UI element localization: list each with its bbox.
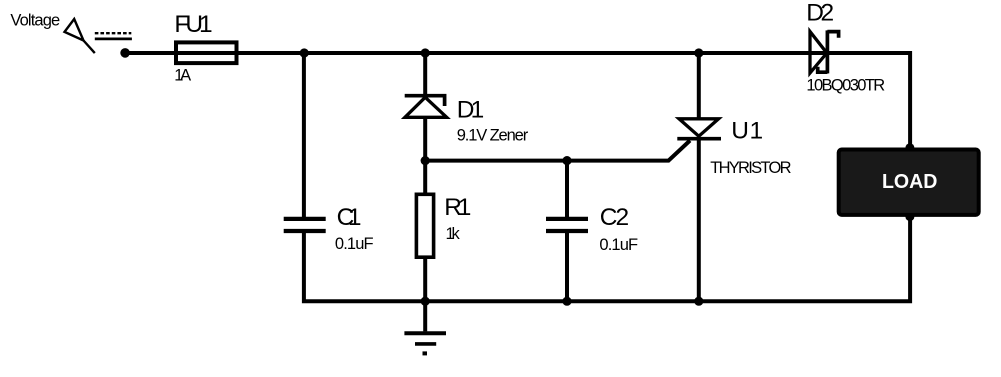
svg-text:LOAD: LOAD — [882, 171, 938, 193]
svg-text:U1: U1 — [731, 117, 763, 144]
svg-text:1A: 1A — [174, 67, 191, 85]
svg-text:C2: C2 — [600, 204, 629, 231]
svg-text:FU1: FU1 — [174, 11, 212, 38]
svg-text:D2: D2 — [806, 0, 834, 27]
svg-text:Voltage: Voltage — [10, 12, 60, 30]
svg-text:C1: C1 — [337, 204, 362, 231]
svg-text:10BQ030TR: 10BQ030TR — [806, 76, 885, 94]
svg-text:9.1V Zener: 9.1V Zener — [457, 127, 529, 145]
svg-text:D1: D1 — [457, 96, 485, 123]
svg-text:1k: 1k — [446, 225, 461, 243]
svg-text:0.1uF: 0.1uF — [335, 235, 374, 253]
svg-text:THYRISTOR: THYRISTOR — [710, 159, 791, 177]
svg-text:0.1uF: 0.1uF — [599, 236, 638, 254]
svg-text:R1: R1 — [444, 194, 471, 221]
